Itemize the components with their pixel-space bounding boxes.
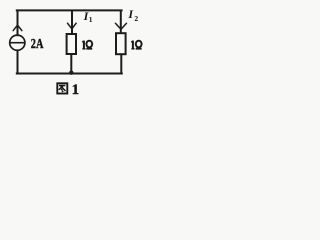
svg-text:2A: 2A — [31, 37, 44, 52]
svg-text:1: 1 — [72, 82, 80, 98]
svg-text:I: I — [127, 7, 134, 21]
svg-text:1: 1 — [89, 15, 93, 24]
svg-text:2: 2 — [134, 14, 138, 23]
